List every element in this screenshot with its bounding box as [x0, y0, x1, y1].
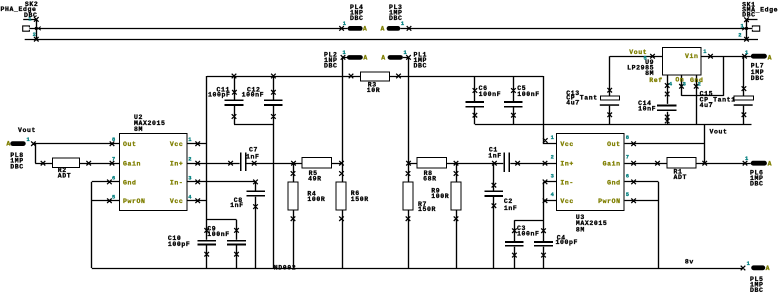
svg-text:1: 1	[745, 50, 749, 56]
svg-text:4: 4	[669, 81, 673, 87]
svg-text:Vout: Vout	[710, 128, 728, 135]
svg-text:100pF: 100pF	[168, 241, 191, 248]
svg-text:In+: In+	[560, 161, 574, 168]
svg-text:100nF: 100nF	[207, 231, 230, 238]
svg-text:1: 1	[745, 156, 749, 162]
svg-text:4u7: 4u7	[700, 102, 714, 109]
svg-text:DBC: DBC	[750, 181, 764, 188]
svg-text:100pF: 100pF	[556, 239, 579, 246]
svg-text:10R: 10R	[367, 87, 381, 94]
svg-text:3: 3	[683, 81, 687, 87]
svg-text:Gain: Gain	[123, 161, 141, 168]
svg-text:8M: 8M	[576, 226, 585, 233]
svg-text:8: 8	[626, 135, 630, 141]
svg-text:C7: C7	[249, 147, 258, 154]
svg-text:68R: 68R	[423, 175, 437, 182]
svg-text:Vcc: Vcc	[560, 141, 574, 148]
svg-text:100nF: 100nF	[479, 91, 502, 98]
svg-text:4: 4	[551, 192, 555, 198]
svg-text:DBC: DBC	[350, 15, 364, 22]
svg-text:100nF: 100nF	[517, 91, 540, 98]
svg-text:4: 4	[188, 194, 192, 200]
svg-text:100R: 100R	[307, 196, 325, 203]
svg-text:100nF: 100nF	[517, 231, 540, 238]
svg-text:DBC: DBC	[751, 75, 765, 82]
svg-text:2: 2	[551, 155, 555, 161]
svg-text:ADT: ADT	[674, 174, 688, 181]
svg-text:1: 1	[28, 17, 32, 23]
svg-text:1: 1	[401, 21, 405, 27]
svg-text:2: 2	[698, 81, 702, 87]
svg-text:6: 6	[112, 176, 116, 182]
svg-text:Vout: Vout	[18, 127, 36, 134]
svg-text:In-: In-	[170, 179, 184, 186]
svg-text:A: A	[768, 54, 773, 61]
svg-text:1nF: 1nF	[504, 205, 518, 212]
svg-text:3: 3	[551, 173, 555, 179]
svg-text:5: 5	[644, 55, 648, 61]
svg-text:2: 2	[33, 32, 37, 38]
svg-text:100R: 100R	[431, 193, 449, 200]
svg-text:150R: 150R	[351, 196, 369, 203]
svg-text:Out: Out	[123, 141, 137, 148]
svg-text:1: 1	[27, 137, 31, 143]
svg-text:DBC: DBC	[10, 163, 24, 170]
svg-text:1: 1	[343, 21, 347, 27]
svg-text:1: 1	[343, 50, 347, 56]
svg-text:A: A	[381, 54, 386, 61]
svg-text:100nF: 100nF	[242, 91, 265, 98]
svg-text:Gnd: Gnd	[123, 179, 137, 186]
svg-text:8: 8	[112, 137, 116, 143]
svg-text:ADT: ADT	[58, 172, 72, 179]
svg-text:5: 5	[626, 192, 630, 198]
svg-text:DBC: DBC	[324, 63, 338, 70]
svg-text:In-: In-	[560, 179, 574, 186]
svg-text:4u7: 4u7	[566, 99, 580, 106]
svg-text:Gnd: Gnd	[607, 179, 621, 186]
svg-text:10nF: 10nF	[638, 105, 656, 112]
svg-text:7: 7	[112, 157, 116, 163]
svg-text:Out: Out	[607, 141, 621, 148]
svg-text:1: 1	[404, 50, 408, 56]
svg-text:1: 1	[703, 49, 707, 55]
svg-text:2: 2	[188, 157, 192, 163]
svg-text:150R: 150R	[418, 206, 436, 213]
svg-text:1nF: 1nF	[230, 202, 244, 209]
svg-text:1: 1	[747, 261, 751, 267]
svg-text:1: 1	[188, 137, 192, 143]
svg-text:1: 1	[741, 24, 745, 30]
svg-text:3: 3	[188, 176, 192, 182]
svg-text:8M: 8M	[645, 70, 654, 77]
svg-text:2: 2	[738, 33, 742, 39]
svg-text:A: A	[363, 25, 368, 32]
svg-text:Vcc: Vcc	[170, 198, 184, 205]
svg-text:6: 6	[626, 173, 630, 179]
svg-text:1: 1	[551, 135, 555, 141]
svg-text:ND002: ND002	[274, 265, 297, 272]
svg-text:PwrON: PwrON	[598, 198, 621, 205]
svg-text:100pF: 100pF	[208, 91, 231, 98]
svg-text:1nF: 1nF	[488, 153, 502, 160]
svg-text:8v: 8v	[685, 259, 694, 266]
svg-text:Vcc: Vcc	[170, 141, 184, 148]
svg-text:DBC: DBC	[742, 12, 756, 19]
svg-text:8M: 8M	[134, 126, 143, 133]
svg-text:Gain: Gain	[603, 161, 621, 168]
svg-text:DBC: DBC	[750, 287, 764, 292]
svg-text:A: A	[363, 54, 368, 61]
svg-text:Vcc: Vcc	[560, 198, 574, 205]
svg-text:A: A	[381, 25, 386, 32]
svg-text:Ref: Ref	[649, 77, 663, 84]
svg-text:5: 5	[112, 194, 116, 200]
svg-text:7: 7	[626, 155, 630, 161]
svg-text:49R: 49R	[308, 175, 322, 182]
svg-text:A: A	[766, 265, 771, 272]
svg-text:1nF: 1nF	[246, 154, 260, 161]
svg-text:A: A	[6, 141, 11, 148]
svg-text:Vin: Vin	[685, 53, 699, 60]
svg-text:In+: In+	[170, 161, 184, 168]
svg-text:DBC: DBC	[414, 63, 428, 70]
svg-text:PwrON: PwrON	[123, 198, 146, 205]
svg-text:A: A	[768, 161, 773, 168]
